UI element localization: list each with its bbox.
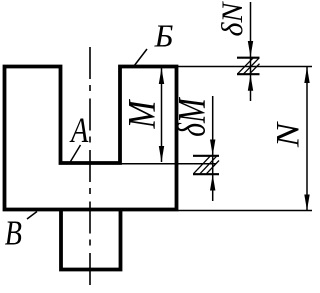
svg-text:М: М — [119, 98, 163, 129]
part stem (lower tenon) — [61, 208, 121, 270]
svg-text:δМ: δМ — [170, 97, 214, 137]
leader line for surface B (top) — [134, 49, 147, 66]
centerline (dash-dot axis) — [89, 47, 91, 288]
dimension deltaM line — [212, 96, 214, 201]
svg-text:N: N — [269, 121, 306, 148]
dimension deltaN line — [250, 2, 252, 101]
deltaM tolerance zone hatch — [193, 156, 219, 174]
dimension N lower arrow — [304, 195, 309, 211]
dimension deltaM upper arrow — [210, 140, 215, 156]
extension line from slot bottom (surface A) — [121, 163, 216, 165]
dimension M upper arrow — [159, 68, 164, 84]
extension line from top surface (B level) — [178, 66, 312, 68]
leader line for surface A (slot bottom) — [71, 145, 81, 162]
dimension N upper arrow — [304, 67, 309, 83]
part body outline (U-shaped bracket cross-section) — [5, 67, 177, 210]
dimension deltaM lower arrow — [210, 175, 215, 191]
dimension deltaN upper arrow — [248, 41, 253, 57]
dimension M lower arrow — [159, 146, 164, 162]
svg-text:δN: δN — [216, 1, 249, 37]
svg-text:А: А — [69, 110, 88, 150]
svg-text:В: В — [5, 214, 22, 253]
extension line from bottom surface — [178, 210, 312, 212]
dimension N line — [306, 67, 308, 211]
svg-text:Б: Б — [154, 19, 174, 54]
deltaN tolerance zone hatch — [237, 58, 260, 74]
leader line for surface V (bottom) — [27, 212, 37, 220]
dimension M line — [161, 68, 163, 162]
dimension deltaN lower arrow — [248, 75, 253, 91]
